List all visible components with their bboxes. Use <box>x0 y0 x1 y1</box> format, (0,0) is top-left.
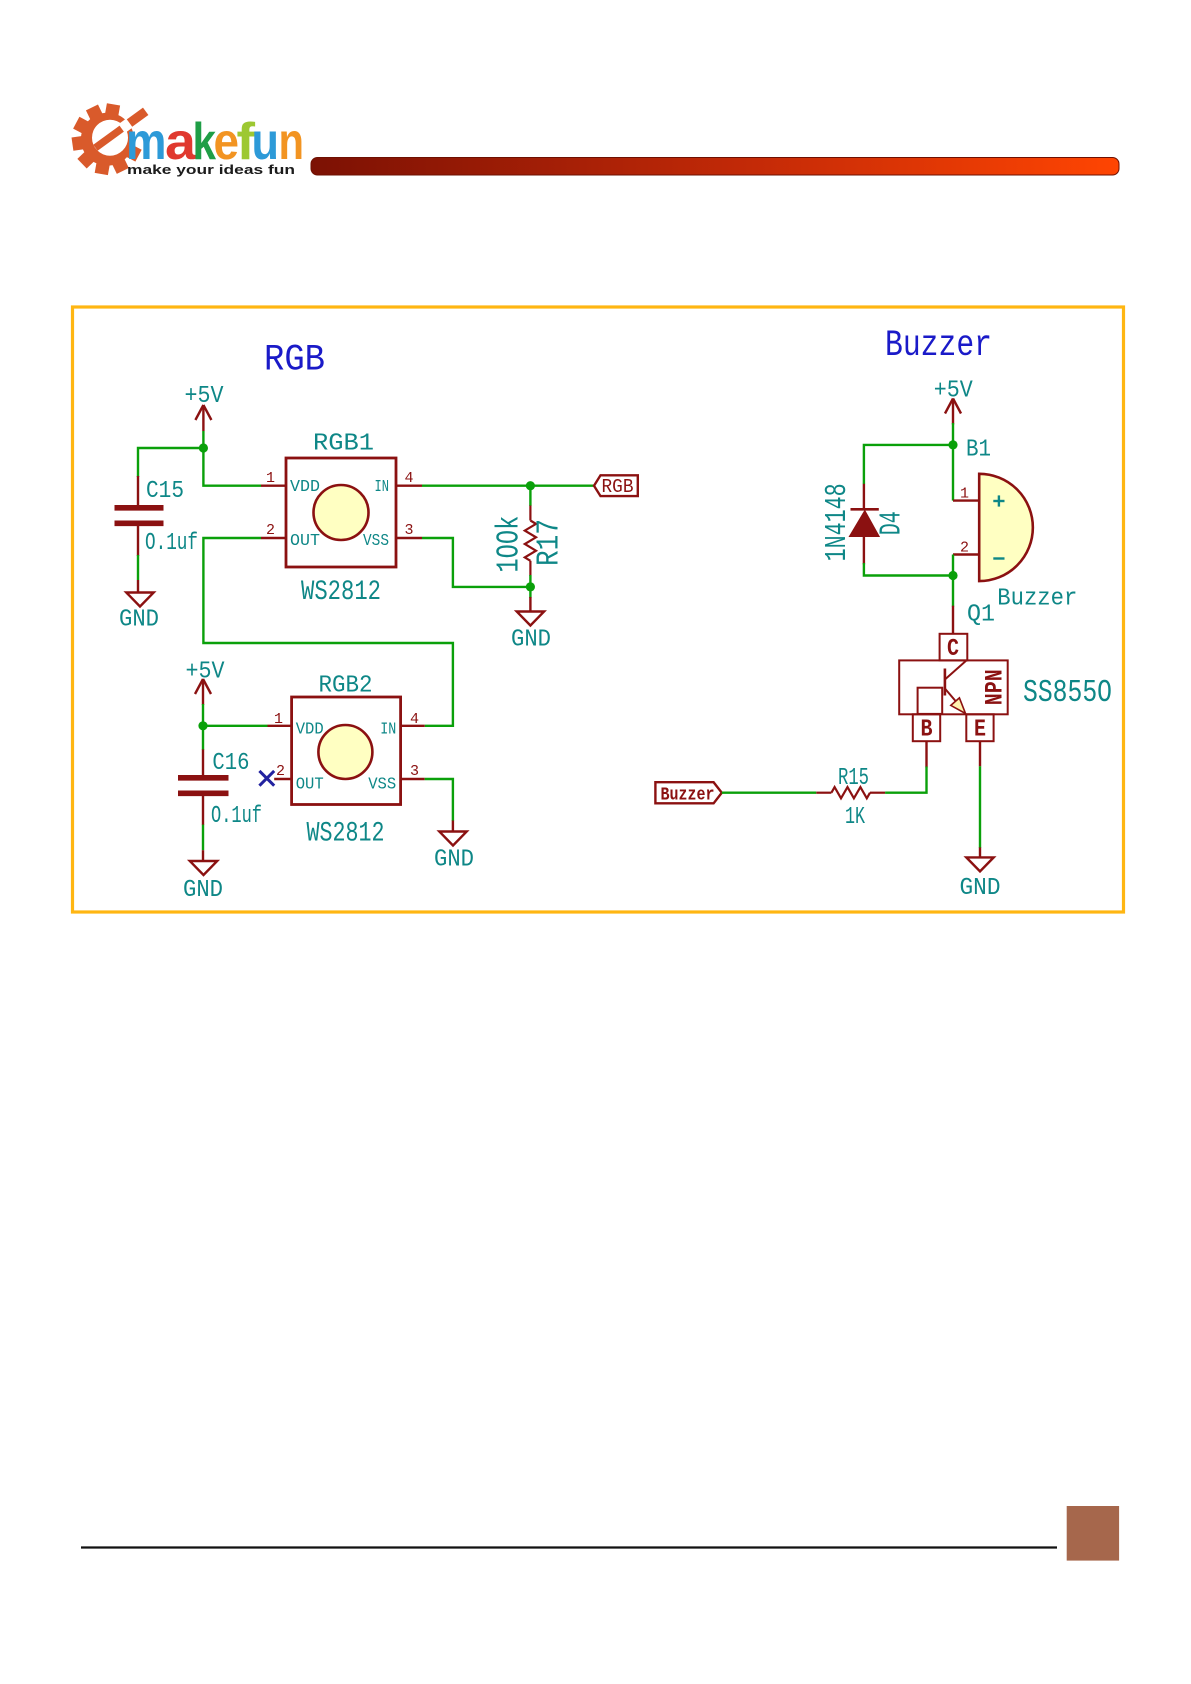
junction node buzzer bottom <box>948 571 957 580</box>
Q1 emitter arrowhead <box>951 698 966 714</box>
svg-text:RGB1: RGB1 <box>313 430 374 457</box>
Q1 base bar <box>944 669 947 696</box>
svg-text:C: C <box>947 635 959 662</box>
Q1 collector diagonal <box>945 660 967 679</box>
power symbol +5V (Buzzer) <box>945 399 961 425</box>
wire RGB2 VSS to GND <box>425 779 453 821</box>
junction node +5V RGB2 <box>198 721 207 730</box>
svg-text:RGB: RGB <box>602 476 634 498</box>
svg-text:1K: 1K <box>845 803 865 830</box>
Q1 collector lead <box>952 606 954 634</box>
svg-text:RGB2: RGB2 <box>319 672 373 699</box>
LED RGB2 body <box>292 697 401 805</box>
Q1 emitter pad E <box>966 714 993 741</box>
wire C15 to GND <box>137 555 139 580</box>
GND lead (R17) <box>529 597 531 612</box>
svg-text:R17: R17 <box>532 519 567 566</box>
svg-text:B1: B1 <box>966 436 991 463</box>
Q1 base lead <box>925 741 927 767</box>
svg-text:R15: R15 <box>838 764 869 791</box>
wire junction to C15 <box>138 448 203 477</box>
header divider bar <box>311 158 1119 176</box>
capacitor C16 bottom plate <box>178 790 229 796</box>
wire RGB1 OUT to RGB2 IN <box>203 538 453 726</box>
ground symbol (C16) <box>190 861 217 875</box>
Q1 emitter lead <box>979 741 981 766</box>
svg-text:1: 1 <box>960 486 969 503</box>
svg-text:GND: GND <box>511 626 551 653</box>
RGB1 pin 3 VSS <box>396 537 422 539</box>
RGB2 pin 4 IN <box>401 725 425 727</box>
svg-text:O.1uf: O.1uf <box>145 529 198 556</box>
svg-text:WS2812: WS2812 <box>301 576 381 608</box>
buzzer pin 1 <box>953 499 979 501</box>
makefun logo gear <box>72 103 142 175</box>
svg-text:D4: D4 <box>875 511 910 535</box>
svg-text:3: 3 <box>405 522 414 539</box>
RGB1 pin 2 OUT <box>261 537 286 539</box>
svg-text:VDD: VDD <box>296 720 324 739</box>
svg-text:Q1: Q1 <box>967 601 995 628</box>
capacitor C16 top plate <box>178 775 229 781</box>
junction node RGB/R17 <box>526 481 535 490</box>
svg-text:1: 1 <box>274 711 283 728</box>
svg-text:NPN: NPN <box>981 669 1009 705</box>
RGB2 pin 2 OUT <box>274 778 291 780</box>
diode D4 cathode lead <box>863 484 865 510</box>
buzzer pin 2 <box>953 553 979 555</box>
resistor R15 left lead <box>816 792 831 794</box>
svg-text:2: 2 <box>276 763 285 780</box>
wire R15 to Q1 base <box>885 767 926 793</box>
Q1 base pad B <box>913 714 940 741</box>
GND lead (C16) <box>202 850 204 861</box>
no-connect X on RGB2 OUT <box>259 771 274 786</box>
svg-text:OUT: OUT <box>296 775 324 794</box>
wire +5V RGB2 to junction <box>202 704 204 726</box>
wire junction to GND (R17) <box>529 587 531 598</box>
wire diode to junction 2 <box>864 563 953 576</box>
footer page marker square <box>1067 1506 1119 1561</box>
svg-text:WS2812: WS2812 <box>307 817 385 849</box>
schematic frame <box>73 307 1124 912</box>
wire buzzer pin 2 to junction <box>952 555 954 576</box>
svg-text:GND: GND <box>960 874 1001 901</box>
svg-text:C15: C15 <box>146 477 184 504</box>
resistor R17 top lead <box>529 506 531 521</box>
buzzer minus mark <box>993 557 1004 559</box>
capacitor C16 bottom lead <box>202 796 204 825</box>
wire junction to RGB2 VDD <box>203 725 268 727</box>
svg-text:IN: IN <box>380 720 396 739</box>
LED RGB1 lens circle <box>314 485 369 540</box>
wire junction to buzzer pin 1 <box>952 445 954 501</box>
wire +5V to junction B1 <box>952 423 954 445</box>
svg-text:VSS: VSS <box>363 532 389 551</box>
Q1 inner base square <box>918 688 943 714</box>
buzzer B1 body <box>979 474 1033 581</box>
RGB2 pin 1 VDD <box>268 725 292 727</box>
svg-text:GND: GND <box>119 606 159 633</box>
svg-text:Buzzer: Buzzer <box>661 786 715 806</box>
svg-text:OUT: OUT <box>290 532 320 551</box>
Q1 collector pad C <box>940 634 968 661</box>
wire junction to diode D4 <box>864 445 953 484</box>
resistor R17 bottom lead <box>529 561 531 576</box>
svg-text:1N4148: 1N4148 <box>821 483 856 561</box>
ground symbol (R17) <box>517 612 544 626</box>
svg-text:1: 1 <box>266 470 275 487</box>
wire +5V to junction <box>202 431 204 448</box>
RGB2 pin 3 VSS <box>401 778 425 780</box>
resistor R15 right lead <box>870 792 885 794</box>
power symbol +5V (RGB1) <box>195 405 211 431</box>
junction node R17 bottom <box>526 582 535 591</box>
wire RGB1 IN to net RGB <box>422 485 594 487</box>
net label RGB flag <box>594 475 638 496</box>
svg-text:1OOk: 1OOk <box>492 516 527 573</box>
svg-text:4: 4 <box>405 470 414 487</box>
resistor R15 body <box>831 787 870 798</box>
GND lead (Q1) <box>979 847 981 857</box>
capacitor C15 bottom lead <box>137 526 139 556</box>
ground symbol (C15) <box>126 593 153 607</box>
Q1 emitter diagonal <box>945 689 965 712</box>
ground symbol (Q1) <box>966 857 993 871</box>
footer rule <box>81 1546 1057 1548</box>
power symbol +5V (RGB2) <box>195 679 211 705</box>
capacitor C15 top lead <box>137 476 139 505</box>
junction node +5V RGB1 <box>199 443 208 452</box>
svg-text:4: 4 <box>410 711 419 728</box>
svg-text:3: 3 <box>410 763 419 780</box>
capacitor C15 bottom plate <box>115 520 164 526</box>
wire Q1 emitter to GND <box>979 766 981 848</box>
wire junction to R17 <box>529 486 531 506</box>
wire C16 to GND <box>202 825 204 851</box>
wire +5V to RGB1 VDD <box>203 448 261 486</box>
ground symbol (RGB2) <box>439 832 466 846</box>
transistor Q1 body <box>899 660 1008 714</box>
svg-text:2: 2 <box>266 522 275 539</box>
logo wordmark makefun <box>126 113 304 171</box>
RGB1 pin 1 VDD <box>261 485 286 487</box>
LED RGB2 lens circle <box>318 725 372 779</box>
buzzer plus mark <box>993 495 1004 506</box>
junction node B1 top <box>948 440 957 449</box>
svg-text:make your ideas fun: make your ideas fun <box>127 162 295 177</box>
svg-text:RGB: RGB <box>264 340 325 382</box>
GND lead (C15) <box>137 580 139 593</box>
RGB1 pin 4 IN <box>396 485 422 487</box>
svg-text:2: 2 <box>960 540 969 557</box>
svg-text:VSS: VSS <box>368 775 396 794</box>
svg-text:E: E <box>974 716 986 743</box>
wire junction to C16 <box>202 726 204 750</box>
capacitor C15 top plate <box>115 505 164 511</box>
wire R17 to junction 2 <box>529 575 531 587</box>
svg-text:VDD: VDD <box>290 478 320 497</box>
resistor R17 body <box>525 521 536 561</box>
wire junction to Q1 collector <box>952 576 954 607</box>
diode D4 cathode bar <box>851 508 879 511</box>
wire RGB1 VSS to R17 bottom <box>422 538 530 587</box>
LED RGB1 body <box>286 458 396 567</box>
svg-text:Buzzer: Buzzer <box>997 585 1077 612</box>
net label Buzzer flag <box>655 782 721 803</box>
svg-text:B: B <box>921 716 933 743</box>
svg-text:C16: C16 <box>212 749 249 776</box>
svg-text:GND: GND <box>183 876 223 903</box>
capacitor C16 top lead <box>202 749 204 775</box>
diode D4 anode lead <box>863 536 865 564</box>
svg-text:GND: GND <box>434 846 474 873</box>
GND lead (RGB2) <box>452 821 454 832</box>
svg-text:O.1uf: O.1uf <box>211 802 262 829</box>
svg-text:SS855O: SS855O <box>1023 676 1112 711</box>
svg-text:IN: IN <box>375 478 390 497</box>
svg-text:Buzzer: Buzzer <box>885 325 992 367</box>
diode D4 triangle <box>850 511 879 536</box>
wire Buzzer label to R15 <box>722 792 817 794</box>
